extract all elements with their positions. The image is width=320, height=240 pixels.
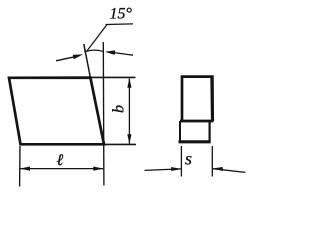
- svg-text:ℓ: ℓ: [57, 152, 64, 169]
- svg-text:b: b: [111, 105, 128, 113]
- svg-text:15°: 15°: [110, 6, 133, 23]
- svg-text:s: s: [185, 149, 192, 169]
